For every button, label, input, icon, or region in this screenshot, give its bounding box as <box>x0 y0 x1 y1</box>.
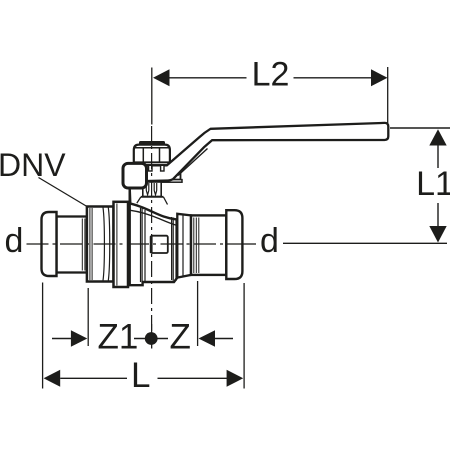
svg-text:L1: L1 <box>416 165 450 203</box>
svg-text:L2: L2 <box>252 56 290 94</box>
svg-text:DNV: DNV <box>0 147 66 183</box>
svg-text:Z: Z <box>170 318 191 357</box>
svg-text:Z1: Z1 <box>98 318 139 357</box>
svg-text:d: d <box>5 222 24 260</box>
svg-text:L: L <box>131 356 150 395</box>
svg-text:d: d <box>260 222 279 260</box>
